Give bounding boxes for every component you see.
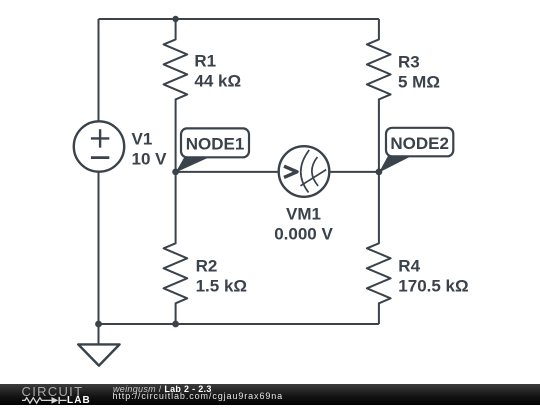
node junction top [172, 16, 178, 22]
node NODE2 callout pointer [379, 155, 414, 173]
svg-text:R1: R1 [194, 52, 216, 71]
wire bottom rail [99, 323, 379, 325]
resistor R2 [164, 172, 188, 324]
wire left rail upper [98, 19, 100, 121]
svg-text:170.5 kΩ: 170.5 kΩ [398, 276, 468, 295]
svg-text:5 MΩ: 5 MΩ [398, 72, 440, 91]
wire left rail lower [98, 172, 100, 324]
footer bar [0, 384, 540, 405]
node R2 bottom junction [172, 321, 179, 328]
resistor R4 [367, 172, 391, 324]
svg-text:0.000 V: 0.000 V [274, 224, 333, 243]
svg-text:VM1: VM1 [286, 205, 321, 224]
footer logo CIRCUIT [22, 384, 84, 399]
svg-text:1.5 kΩ: 1.5 kΩ [196, 276, 247, 295]
resistor R1 [164, 19, 188, 172]
footer logo LAB [67, 395, 91, 406]
resistor R3 [367, 19, 391, 172]
node ground junction [95, 321, 102, 328]
svg-text:NODE1: NODE1 [186, 135, 245, 154]
footer title text [113, 384, 212, 394]
voltage source V1 [74, 121, 124, 171]
svg-text:R3: R3 [398, 52, 420, 71]
node NODE2 callout box [386, 128, 453, 157]
footer url text [113, 391, 284, 401]
node NODE1 junction [172, 169, 179, 176]
footer logo symbol [21, 395, 68, 406]
svg-text:44 kΩ: 44 kΩ [194, 72, 241, 91]
voltmeter VM1 [279, 146, 330, 197]
wire node1 to voltmeter [176, 171, 279, 173]
svg-text:10 V: 10 V [132, 149, 168, 168]
ground [78, 324, 119, 366]
wire voltmeter to node2 [329, 171, 379, 173]
node NODE1 callout pointer [176, 156, 212, 173]
node NODE1 callout box [181, 128, 249, 157]
svg-text:V1: V1 [132, 129, 153, 148]
node NODE2 junction [376, 169, 383, 176]
wire top rail [99, 18, 379, 20]
svg-text:NODE2: NODE2 [390, 134, 449, 153]
svg-text:R4: R4 [398, 256, 420, 275]
svg-text:R2: R2 [196, 256, 218, 275]
